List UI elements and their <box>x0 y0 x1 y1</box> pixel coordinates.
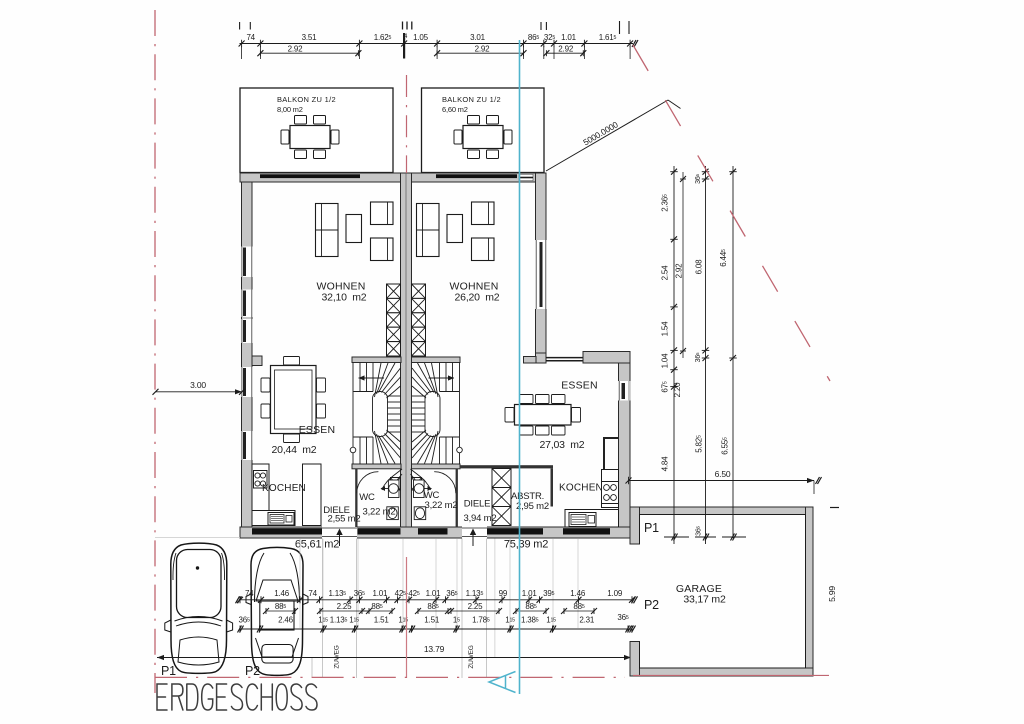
svg-text:4.84: 4.84 <box>661 456 670 472</box>
svg-text:3.01: 3.01 <box>470 33 486 42</box>
property boundary red line center lower <box>406 557 408 678</box>
garage south wall <box>640 668 814 676</box>
front wall house 2 <box>411 173 546 182</box>
store room east wall house 2 <box>551 469 554 507</box>
svg-text:WC: WC <box>359 492 375 503</box>
svg-text:1.01: 1.01 <box>522 589 538 598</box>
stair west edge house 1 <box>352 363 354 465</box>
svg-text:1.01: 1.01 <box>373 589 389 598</box>
svg-text:5.99: 5.99 <box>827 586 837 602</box>
svg-text:1.01: 1.01 <box>426 589 442 598</box>
top sub dimension 2.92 lines <box>260 52 358 54</box>
balcony house 1 outline <box>240 88 393 173</box>
car on parking P2 <box>246 547 308 675</box>
svg-text:27,03 m2: 27,03 m2 <box>540 439 585 451</box>
right dimension chain B <box>705 166 707 544</box>
svg-text:2.92: 2.92 <box>675 263 684 279</box>
wc sink house 1 <box>388 480 399 498</box>
east wall dining wing window <box>618 381 630 401</box>
svg-text:3,94 m2: 3,94 m2 <box>464 513 497 524</box>
bottom dimension row 1 line <box>240 599 632 601</box>
svg-text:2.31: 2.31 <box>579 616 595 625</box>
section line A-A cyan <box>519 40 521 694</box>
dimension 3.00 west <box>156 391 243 393</box>
svg-text:1.01: 1.01 <box>561 33 577 42</box>
property boundary red dash-dot line west <box>154 10 156 693</box>
stove house 1 <box>254 471 268 489</box>
party wall between houses <box>401 173 412 538</box>
west wall windows <box>241 247 252 278</box>
garage east wall <box>806 507 814 676</box>
svg-text:2,95 m2: 2,95 m2 <box>516 501 549 512</box>
svg-text:3.51: 3.51 <box>302 33 318 42</box>
flared opening under stairs house 1 <box>382 469 402 490</box>
svg-text:P1: P1 <box>161 664 176 678</box>
svg-text:1.04: 1.04 <box>661 353 670 369</box>
leader line 5000.0000 <box>546 100 668 171</box>
svg-text:ESSEN: ESSEN <box>561 380 598 392</box>
walkway strip lines <box>322 539 324 679</box>
svg-text:P1: P1 <box>644 521 659 535</box>
svg-text:1.54: 1.54 <box>661 321 670 337</box>
kitchen counter house 2 <box>602 470 619 508</box>
svg-text:P2: P2 <box>245 664 260 678</box>
property boundary red dash-dot line center upper <box>406 75 408 173</box>
svg-text:3,22 m2: 3,22 m2 <box>363 507 396 518</box>
svg-text:1.05: 1.05 <box>413 33 429 42</box>
svg-text:74: 74 <box>308 589 317 598</box>
kitchen counter house 1 <box>252 464 269 513</box>
wc door arc house 1 <box>357 472 379 494</box>
svg-text:8,00 m2: 8,00 m2 <box>277 105 303 114</box>
svg-text:26,20 m2: 26,20 m2 <box>455 292 500 304</box>
top dimension extension lines <box>241 46 243 59</box>
stove house 2 <box>602 482 619 504</box>
svg-text:20,44 m2: 20,44 m2 <box>272 444 317 456</box>
svg-text:DIELE: DIELE <box>464 499 490 510</box>
sink house 2 <box>569 513 596 527</box>
stairwell north wall house 1 <box>352 357 401 363</box>
sofa group house 1 <box>316 204 339 257</box>
svg-text:2,55 m2: 2,55 m2 <box>328 514 361 525</box>
tick north of garage <box>830 507 839 509</box>
top wall-face ticks <box>239 22 241 30</box>
bottom dimension row 2 sub lines <box>266 610 295 612</box>
bottom dimension row 3 line <box>240 628 632 630</box>
svg-text:1.09: 1.09 <box>607 589 623 598</box>
stair east edge house 2 <box>459 363 461 465</box>
dining table house 2 <box>515 405 572 426</box>
car on parking P1 <box>165 543 233 673</box>
svg-text:BALKON ZU 1/2: BALKON ZU 1/2 <box>277 95 336 104</box>
svg-text:65,61 m2: 65,61 m2 <box>295 539 339 551</box>
right dimension chain A <box>673 166 675 544</box>
top dimension chain line <box>240 43 634 45</box>
svg-text:BALKON ZU 1/2: BALKON ZU 1/2 <box>442 95 501 104</box>
wc toilet house 2 <box>414 507 426 520</box>
svg-text:ZUWEG: ZUWEG <box>468 645 475 668</box>
shaft in store room house 2 <box>492 469 511 488</box>
svg-text:ZUWEG: ZUWEG <box>334 645 341 668</box>
balcony window band house 1 <box>260 174 360 178</box>
front wall house 1 <box>240 173 401 182</box>
red dashed diagonal boundary north-east <box>633 45 830 381</box>
svg-text:1.46: 1.46 <box>570 589 586 598</box>
garage north wall <box>630 507 813 515</box>
svg-text:2.92: 2.92 <box>288 45 304 54</box>
chimney shaft house 2 <box>412 284 426 298</box>
dining table house 1 <box>271 366 317 434</box>
hall north wall house 2 <box>460 465 554 468</box>
entrance arrow house 2 <box>472 533 474 546</box>
svg-text:KOCHEN: KOCHEN <box>262 483 306 494</box>
svg-text:425·425: 425·425 <box>395 589 420 598</box>
svg-text:KOCHEN: KOCHEN <box>559 483 603 494</box>
kitchen nook wall house 2 <box>604 438 619 481</box>
balcony window band house 2 <box>436 174 517 178</box>
dining wing north wall stub <box>524 357 537 364</box>
garage interior edge <box>640 515 806 669</box>
svg-text:2.92: 2.92 <box>475 45 491 54</box>
property boundary red dash-dot line south <box>155 676 625 678</box>
dimension 6.50 <box>629 480 815 482</box>
svg-text:6.08: 6.08 <box>695 259 704 275</box>
staircase house 1 <box>359 363 361 392</box>
bottom dimension 13.79 line <box>157 657 631 659</box>
svg-text:99: 99 <box>499 589 508 598</box>
tall unit house 1 <box>303 464 322 526</box>
svg-text:6.50: 6.50 <box>715 469 731 479</box>
svg-text:2.92: 2.92 <box>558 45 574 54</box>
section marker letter A <box>489 672 516 693</box>
svg-text:6,60 m2: 6,60 m2 <box>442 105 468 114</box>
top dimension end marker <box>632 40 636 47</box>
stairwell south wall house 1 <box>352 464 401 469</box>
balcony house 2 table and chairs <box>463 126 503 149</box>
garage west wall stubs <box>630 507 640 544</box>
svg-text:2.25: 2.25 <box>337 602 353 611</box>
svg-text:2.25: 2.25 <box>468 602 484 611</box>
svg-text:1.51: 1.51 <box>374 616 390 625</box>
light construction lines bottom <box>299 539 301 628</box>
entrance door gap house 2 <box>462 526 487 538</box>
west wall house 1 <box>242 182 253 531</box>
small shaft under stairs house 2 <box>412 478 422 491</box>
svg-text:ESSEN: ESSEN <box>299 424 336 436</box>
west wall pier sill <box>252 356 262 366</box>
chimney shaft house 1 <box>387 284 401 298</box>
wc toilet house 1 <box>387 507 399 520</box>
svg-text:32,10 m2: 32,10 m2 <box>322 292 367 304</box>
balcony house 1 table and chairs <box>290 126 330 149</box>
dining wing north wall east <box>583 352 630 364</box>
corner window house 2 front <box>519 174 533 180</box>
right dimension chain C <box>732 166 734 538</box>
svg-text:1.51: 1.51 <box>424 616 440 625</box>
wc door arc house 2 <box>434 472 456 494</box>
svg-text:3.00: 3.00 <box>190 380 206 390</box>
right dimension chain A2 <box>682 172 684 358</box>
svg-text:74: 74 <box>245 589 254 598</box>
svg-text:2.20: 2.20 <box>673 382 682 398</box>
sink house 1 <box>268 513 294 526</box>
stairwell north wall house 2 <box>412 357 461 363</box>
svg-text:33,17 m2: 33,17 m2 <box>683 594 726 606</box>
svg-text:P2: P2 <box>644 598 659 612</box>
sofa group house 2 <box>417 204 440 257</box>
svg-text:75,39 m2: 75,39 m2 <box>504 539 548 551</box>
svg-text:1.46: 1.46 <box>274 589 290 598</box>
drawing title ERDGESCHOSS <box>157 684 317 710</box>
dining wing sliding door <box>546 357 583 359</box>
stairwell south wall house 2 <box>412 464 461 469</box>
flared opening under stairs house 2 <box>411 469 431 490</box>
east wall house 2 window <box>535 240 546 309</box>
entrance arrow house 1 <box>339 533 341 546</box>
svg-text:13.79: 13.79 <box>424 644 445 654</box>
entrance door gap house 1 <box>322 526 357 538</box>
small shaft under stairs house 1 <box>391 478 401 491</box>
wc west wall house 1 <box>355 469 357 528</box>
svg-text:2.54: 2.54 <box>661 265 670 281</box>
wc east wall house 2 <box>456 469 458 528</box>
wc sink house 2 <box>414 480 425 498</box>
south wall glazing bands <box>252 528 322 534</box>
svg-text:2.46: 2.46 <box>278 616 294 625</box>
red boundary line under garage <box>633 674 829 676</box>
staircase house 2 <box>452 363 454 392</box>
svg-text:74: 74 <box>246 33 255 42</box>
east wall dining wing <box>619 363 631 538</box>
east wall house 2 living room <box>536 173 547 353</box>
svg-text:3,22 m2: 3,22 m2 <box>425 500 458 511</box>
south wall both houses <box>240 527 630 538</box>
light line left of house base <box>155 537 240 539</box>
balcony house 2 outline <box>422 88 545 173</box>
